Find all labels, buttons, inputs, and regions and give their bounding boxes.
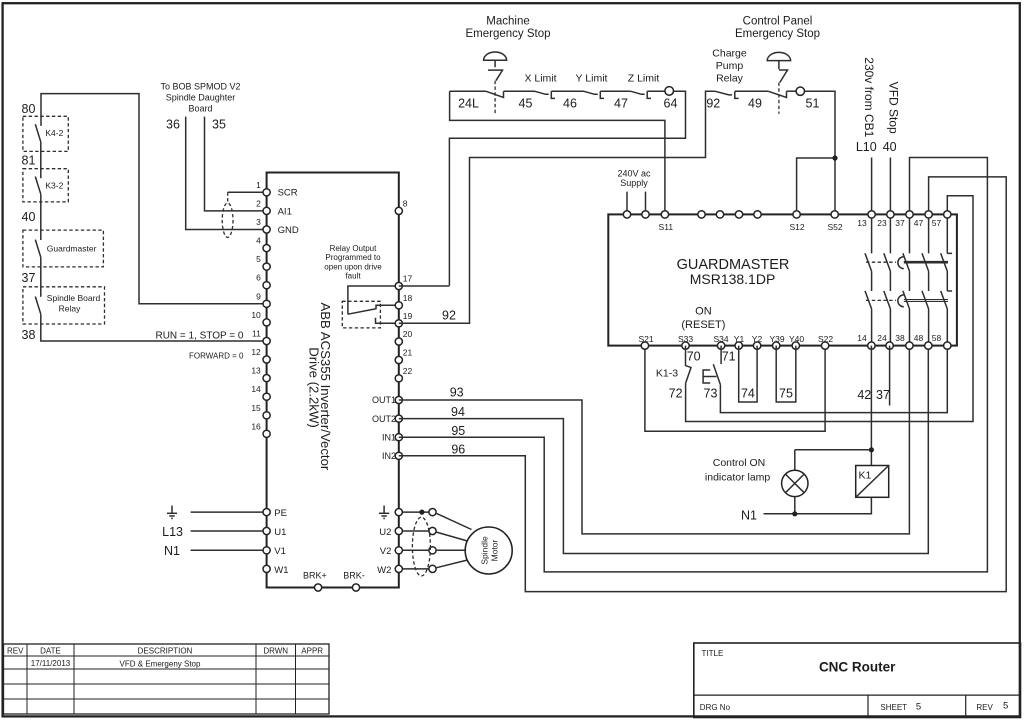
svg-text:VFD Stop: VFD Stop (886, 82, 900, 134)
svg-text:IN1: IN1 (382, 432, 396, 442)
svg-text:Y40: Y40 (789, 334, 804, 344)
svg-text:Charge: Charge (712, 48, 747, 60)
reset pushbutton contact (node 71 / 73) (703, 346, 721, 385)
svg-text:Supply: Supply (620, 178, 648, 188)
contact Guardmaster (dashed box) (23, 230, 104, 267)
contact K1-3 (node 70 / 72) (685, 346, 691, 384)
svg-text:46: 46 (563, 97, 577, 111)
drive right pin 8 (395, 207, 402, 214)
svg-text:V1: V1 (274, 546, 286, 557)
svg-text:BRK-: BRK- (343, 571, 365, 581)
wire net 38: chain to drive pin 11 (RUN) (41, 314, 267, 341)
svg-text:Machine: Machine (486, 15, 529, 27)
motor wire U2 (399, 530, 433, 532)
svg-text:L13: L13 (162, 525, 183, 539)
label Relay Output Programmed to open upon drive fault (324, 244, 382, 281)
svg-text:U2: U2 (379, 527, 391, 538)
svg-text:14: 14 (857, 333, 867, 343)
wire node 37 (40, 257, 42, 297)
svg-text:Programmed to: Programmed to (325, 253, 381, 262)
svg-text:indicator lamp: indicator lamp (705, 472, 771, 484)
svg-text:71: 71 (722, 350, 736, 364)
svg-text:OUT1: OUT1 (372, 395, 396, 405)
svg-text:Board: Board (188, 104, 212, 114)
svg-text:(RESET): (RESET) (681, 319, 725, 331)
svg-text:17: 17 (403, 274, 413, 284)
svg-text:37: 37 (22, 271, 36, 285)
svg-text:GND: GND (278, 225, 299, 236)
svg-text:AI1: AI1 (278, 206, 292, 217)
emergency stop ES2 mushroom head (767, 52, 790, 113)
svg-text:V2: V2 (380, 546, 392, 557)
svg-text:OUT2: OUT2 (372, 414, 396, 424)
svg-text:Spindle Daughter: Spindle Daughter (166, 93, 236, 103)
motor M1 Spindle Motor (465, 527, 512, 574)
svg-text:Relay: Relay (716, 73, 744, 85)
drive bottom-right pins gnd U2 V2 W2 (395, 508, 402, 572)
svg-text:Relay Output: Relay Output (330, 244, 377, 253)
svg-text:Relay: Relay (59, 304, 81, 314)
cable screen ellipse (motor) (412, 517, 430, 576)
svg-text:REV: REV (7, 647, 24, 656)
svg-text:N1: N1 (741, 509, 757, 523)
motor wire PE/shield (399, 511, 433, 513)
drive pin names OUT1 OUT2 IN1 IN2 (372, 395, 396, 461)
contact Spindle Board Relay (dashed box) (23, 287, 105, 324)
svg-text:92: 92 (442, 309, 456, 323)
svg-text:36: 36 (166, 117, 180, 131)
svg-text:Motor: Motor (489, 539, 499, 561)
svg-text:40: 40 (883, 140, 897, 154)
wire net 75 (Y39-Y40 loop) (776, 346, 796, 402)
svg-text:74: 74 (741, 387, 755, 401)
MSR top pin labels (659, 218, 942, 232)
svg-text:K4-2: K4-2 (45, 128, 63, 138)
MSR bottom pin labels (638, 333, 941, 344)
svg-text:6: 6 (256, 273, 261, 283)
svg-text:PE: PE (274, 508, 287, 519)
drive pin names SCR AI1 GND (278, 188, 299, 236)
revision row 1: 17/11/2013 VFD & Emergeny Stop (31, 659, 201, 669)
limit switch contact Z (47) (630, 91, 651, 98)
svg-text:CNC Router: CNC Router (819, 660, 896, 675)
svg-text:Z Limit: Z Limit (628, 73, 660, 85)
svg-text:DRG No: DRG No (700, 703, 731, 712)
svg-text:75: 75 (779, 387, 793, 401)
svg-text:11: 11 (252, 329, 261, 339)
relay contact K4-2 (dashed box) (23, 116, 68, 151)
svg-text:14: 14 (251, 384, 261, 394)
wire net 93: MSR pin38 bottom to drive OUT1 (399, 346, 910, 534)
title block (694, 643, 1021, 718)
svg-text:35: 35 (212, 117, 226, 131)
svg-text:70: 70 (687, 350, 701, 364)
junction shield to PE (419, 509, 424, 514)
terminal circle node 64 (665, 87, 674, 96)
drive left pin number labels (251, 180, 261, 431)
limit switch contact Y (46) (584, 91, 605, 98)
svg-text:S33: S33 (678, 334, 693, 344)
label Charge Pump Relay (712, 48, 747, 85)
junction node 51/S12/S52 (832, 155, 837, 160)
label 240V ac Supply (617, 168, 651, 188)
wire net 40 to pin 23 (889, 158, 891, 215)
svg-text:MSR138.1DP: MSR138.1DP (690, 271, 776, 287)
svg-text:95: 95 (451, 424, 465, 438)
MSR linkage row 2 (dashed + arc + double bar) (866, 295, 948, 307)
title block labels (700, 649, 1008, 713)
svg-text:open upon drive: open upon drive (324, 262, 382, 271)
drive bottom-left pins PE U1 V1 W1 (263, 508, 270, 572)
revision table (4, 644, 330, 714)
svg-text:1: 1 (256, 180, 261, 190)
wire net 80: safety chain feed to drive pin 9 (41, 94, 267, 304)
svg-text:23: 23 (877, 218, 887, 228)
svg-text:X Limit: X Limit (524, 73, 556, 85)
motor leads (436, 513, 472, 568)
svg-text:80: 80 (22, 102, 36, 116)
label ON (RESET) (681, 306, 725, 332)
svg-text:DESCRIPTION: DESCRIPTION (138, 647, 193, 656)
svg-text:40: 40 (22, 210, 36, 224)
indicator lamp H1 (782, 470, 808, 496)
svg-text:FORWARD = 0: FORWARD = 0 (189, 352, 244, 361)
svg-text:Spindle: Spindle (479, 536, 489, 565)
wire net 95: MSR pin37 top to drive IN1 (399, 158, 988, 572)
label Control Panel Emergency Stop (735, 15, 820, 40)
wire net S21-S22 link (645, 346, 825, 432)
svg-text:S12: S12 (789, 222, 804, 232)
svg-text:37: 37 (876, 388, 890, 402)
ground symbol at drive PE input (167, 506, 177, 519)
wire net 94: MSR pin48 bottom to drive OUT2 (399, 346, 929, 554)
svg-text:47: 47 (614, 97, 628, 111)
svg-text:Drive (2.2kW): Drive (2.2kW) (307, 347, 322, 428)
svg-text:Emergency Stop: Emergency Stop (465, 28, 550, 40)
svg-text:47: 47 (914, 218, 924, 228)
svg-text:17/11/2013: 17/11/2013 (31, 659, 71, 668)
label Machine Emergency Stop (465, 15, 550, 40)
relay contact 49 charge pump (715, 91, 739, 98)
svg-text:10: 10 (251, 310, 261, 320)
wire PE input (191, 511, 267, 513)
svg-text:48: 48 (914, 333, 924, 343)
svg-text:94: 94 (451, 405, 465, 419)
svg-text:15: 15 (251, 403, 261, 413)
svg-text:W1: W1 (274, 565, 288, 576)
svg-text:49: 49 (748, 97, 762, 111)
svg-text:64: 64 (664, 97, 678, 111)
svg-text:240V ac: 240V ac (617, 168, 651, 178)
svg-text:S21: S21 (638, 334, 653, 344)
svg-text:S52: S52 (827, 222, 842, 232)
drive right pin number labels 17-22 (403, 274, 413, 376)
motor wire V2 (399, 549, 433, 551)
svg-text:13: 13 (857, 218, 867, 228)
drive relay output contact 17/18/19 (342, 286, 399, 328)
label Control ON indicator lamp (705, 457, 771, 484)
svg-text:72: 72 (669, 387, 683, 401)
svg-text:SCR: SCR (278, 188, 298, 199)
label GUARDMASTER MSR138.1DP (677, 257, 790, 287)
svg-text:5: 5 (916, 702, 921, 713)
svg-text:L10: L10 (856, 140, 877, 154)
svg-text:DRWN: DRWN (263, 647, 288, 656)
label To BOB SPMOD V2 Spindle Daughter Board (160, 82, 240, 114)
svg-text:SHEET: SHEET (880, 703, 907, 712)
wire net S11 feed (24L left end to S11) (450, 91, 665, 214)
wire net N1 bottom (764, 497, 872, 514)
svg-text:8: 8 (403, 198, 408, 208)
svg-text:REV: REV (976, 703, 993, 712)
svg-text:ON: ON (695, 306, 712, 318)
junction K1 top (869, 447, 874, 452)
MSR safety contact column 57-58 (941, 214, 952, 345)
motor wire W2 (399, 568, 433, 570)
svg-text:16: 16 (251, 421, 261, 431)
svg-text:18: 18 (403, 293, 413, 303)
svg-text:96: 96 (451, 443, 465, 457)
svg-text:Guardmaster: Guardmaster (47, 244, 97, 254)
svg-text:Y1: Y1 (734, 334, 745, 344)
svg-text:RUN = 1, STOP = 0: RUN = 1, STOP = 0 (155, 331, 243, 342)
ABB drive U? main box (267, 173, 399, 588)
svg-text:APPR: APPR (301, 647, 323, 656)
emergency stop ES1 mushroom head (484, 52, 507, 114)
svg-text:12: 12 (251, 347, 261, 357)
svg-text:Spindle Board: Spindle Board (47, 293, 101, 303)
svg-text:92: 92 (706, 97, 720, 111)
svg-text:22: 22 (403, 366, 413, 376)
svg-text:9: 9 (256, 291, 261, 301)
svg-text:U1: U1 (274, 527, 286, 538)
wire net L10 to pin 13 (871, 158, 873, 215)
svg-text:VFD & Emergeny Stop: VFD & Emergeny Stop (120, 660, 201, 669)
svg-text:W2: W2 (377, 565, 391, 576)
cable screen ellipse (pins 1-3) (222, 203, 233, 237)
drive left pin circles 1-16 (263, 189, 270, 438)
MSR top pin circles (623, 211, 951, 218)
svg-text:81: 81 (22, 154, 36, 168)
svg-text:38: 38 (895, 333, 905, 343)
svg-text:45: 45 (519, 97, 533, 111)
svg-text:73: 73 (704, 387, 718, 401)
svg-text:3: 3 (256, 217, 261, 227)
svg-text:BRK+: BRK+ (303, 571, 327, 581)
svg-text:Y39: Y39 (769, 334, 784, 344)
svg-text:K3-2: K3-2 (45, 181, 63, 191)
wire node 81 (40, 142, 42, 178)
svg-text:37: 37 (895, 218, 905, 228)
ground symbol inside drive output (379, 506, 389, 519)
wire net 42: pin 14 to relay K1 (870, 346, 872, 466)
svg-text:19: 19 (403, 311, 413, 321)
wire SCR screen pigtail from pin 1 (228, 191, 267, 193)
wire net 24L / estop chain to drive pin 17 (399, 91, 686, 286)
wire net 73: MSR pin58 bottom to reset contact (720, 346, 947, 413)
svg-text:20: 20 (403, 329, 413, 339)
svg-text:N1: N1 (164, 544, 180, 558)
svg-text:5: 5 (256, 254, 261, 264)
svg-text:Pump: Pump (716, 60, 744, 72)
wire net 35: to drive pin 2 AI1 (205, 117, 267, 211)
svg-text:21: 21 (403, 348, 413, 358)
wire 240V supply stubs (627, 192, 646, 215)
wire net 72: MSR pin57 top to contact K1-3 (686, 196, 973, 422)
svg-text:Control ON: Control ON (713, 457, 766, 469)
MSR safety contact column 23-24 (884, 214, 891, 345)
svg-text:Control Panel: Control Panel (743, 15, 813, 27)
wire net 36: to drive pin 3 GND (186, 117, 267, 230)
svg-text:42: 42 (857, 388, 871, 402)
MSR safety contact column 37-38 (903, 214, 910, 345)
svg-text:IN2: IN2 (382, 451, 396, 461)
emergency stop ES2 contact (768, 91, 787, 97)
Guardmaster MSR138.1DP safety relay box (608, 214, 957, 345)
svg-text:230v from CB1: 230v from CB1 (862, 57, 876, 137)
svg-text:51: 51 (806, 97, 820, 111)
svg-text:4: 4 (256, 236, 261, 246)
svg-text:Y2: Y2 (752, 334, 763, 344)
drive right pins 17-22 OUT1 OUT2 IN1 IN2 (395, 282, 402, 459)
revision table headers (7, 647, 323, 656)
svg-text:DATE: DATE (40, 647, 61, 656)
limit switch contact X (45) (535, 91, 556, 98)
relay coil K1 (856, 466, 889, 498)
svg-text:TITLE: TITLE (702, 649, 724, 658)
drive label ABB ACS355 Inverter/Vector Drive (2.2kW) (307, 302, 333, 470)
wire net N1 to V1 (191, 549, 267, 551)
svg-text:S22: S22 (818, 334, 833, 344)
wire net 92 from drive pin 19 to charge pump chain (399, 91, 835, 323)
MSR bottom pin circles (641, 342, 951, 349)
drive BRK+ BRK- pins (315, 584, 360, 591)
relay contact K3-2 (dashed box) (23, 169, 68, 202)
MSR linkage row 1 (dashed + arc + bar) (866, 257, 948, 269)
svg-text:S34: S34 (713, 334, 728, 344)
svg-text:38: 38 (22, 328, 36, 342)
wire lamp branch (795, 450, 872, 470)
motor connector circles (429, 508, 436, 572)
svg-text:K1-3: K1-3 (656, 367, 678, 379)
svg-text:24L: 24L (458, 97, 479, 111)
MSR safety contact column 13-14 (865, 214, 872, 345)
svg-text:93: 93 (450, 386, 464, 400)
wire net 74 (Y1-Y2 loop) (739, 346, 757, 402)
svg-text:Emergency Stop: Emergency Stop (735, 28, 820, 40)
svg-text:2: 2 (256, 198, 261, 208)
svg-text:S11: S11 (659, 222, 674, 232)
svg-text:K1: K1 (859, 470, 872, 482)
junction lamp bottom (792, 511, 797, 516)
svg-text:fault: fault (345, 272, 361, 281)
svg-text:58: 58 (932, 333, 942, 343)
wire node 40 (40, 194, 42, 240)
svg-text:24: 24 (877, 333, 887, 343)
svg-text:57: 57 (932, 218, 942, 228)
svg-text:To BOB SPMOD V2: To BOB SPMOD V2 (160, 82, 240, 92)
MSR safety contact column 47-48 (922, 214, 929, 345)
wire net L13 to U1 (191, 530, 267, 532)
wire net 96: MSR pin47 top to drive IN2 (399, 177, 1006, 592)
svg-text:5: 5 (1003, 701, 1008, 712)
emergency stop ES1 contact (486, 91, 504, 97)
svg-text:Y Limit: Y Limit (576, 73, 608, 85)
wire net 37 stub from pin 24 (889, 346, 891, 406)
svg-text:13: 13 (251, 366, 261, 376)
terminal circle node 51 (796, 87, 804, 95)
